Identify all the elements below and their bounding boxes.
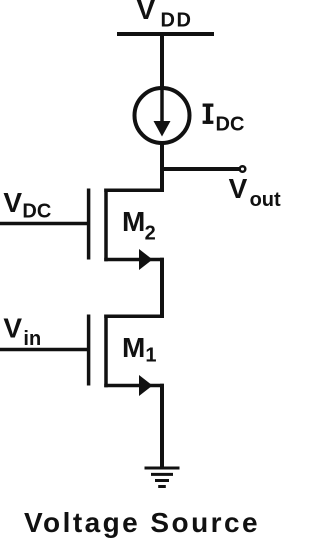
svg-text:V: V bbox=[3, 187, 22, 218]
wire VDD rail to current source bbox=[160, 34, 164, 88]
wire Vout branch bbox=[162, 167, 239, 171]
current source label IDC bbox=[203, 104, 245, 136]
transistor M2 bbox=[89, 189, 164, 271]
wire gate lead Vin bbox=[0, 348, 90, 352]
svg-text:V: V bbox=[3, 313, 22, 344]
wire M2 source to M1 drain bbox=[160, 258, 164, 318]
wire M1 source to ground bbox=[160, 384, 164, 468]
svg-text:out: out bbox=[250, 189, 281, 211]
ground bbox=[145, 468, 180, 487]
svg-text:DD: DD bbox=[161, 9, 193, 31]
node Vout label bbox=[229, 173, 281, 211]
current source IDC bbox=[135, 88, 190, 143]
wire current source to M2 drain bbox=[160, 143, 164, 192]
wire gate lead VDC bbox=[0, 222, 90, 226]
node VDC label bbox=[3, 187, 51, 223]
svg-text:DC: DC bbox=[22, 201, 51, 223]
svg-text:V: V bbox=[137, 0, 156, 25]
svg-text:M: M bbox=[122, 332, 145, 363]
svg-text:2: 2 bbox=[145, 222, 156, 244]
power rail VDD bbox=[117, 32, 214, 36]
transistor M1 bbox=[89, 315, 164, 397]
node VDD label bbox=[137, 0, 193, 31]
label M2 bbox=[122, 206, 156, 245]
terminal Vout bbox=[240, 166, 246, 172]
svg-text:V: V bbox=[229, 173, 248, 204]
svg-text:in: in bbox=[23, 328, 41, 350]
svg-text:Voltage Source: Voltage Source bbox=[24, 507, 260, 538]
svg-text:M: M bbox=[122, 206, 145, 237]
svg-text:DC: DC bbox=[216, 114, 245, 136]
label M1 bbox=[122, 332, 157, 367]
svg-text:1: 1 bbox=[145, 345, 156, 367]
node Vin label bbox=[3, 313, 41, 351]
